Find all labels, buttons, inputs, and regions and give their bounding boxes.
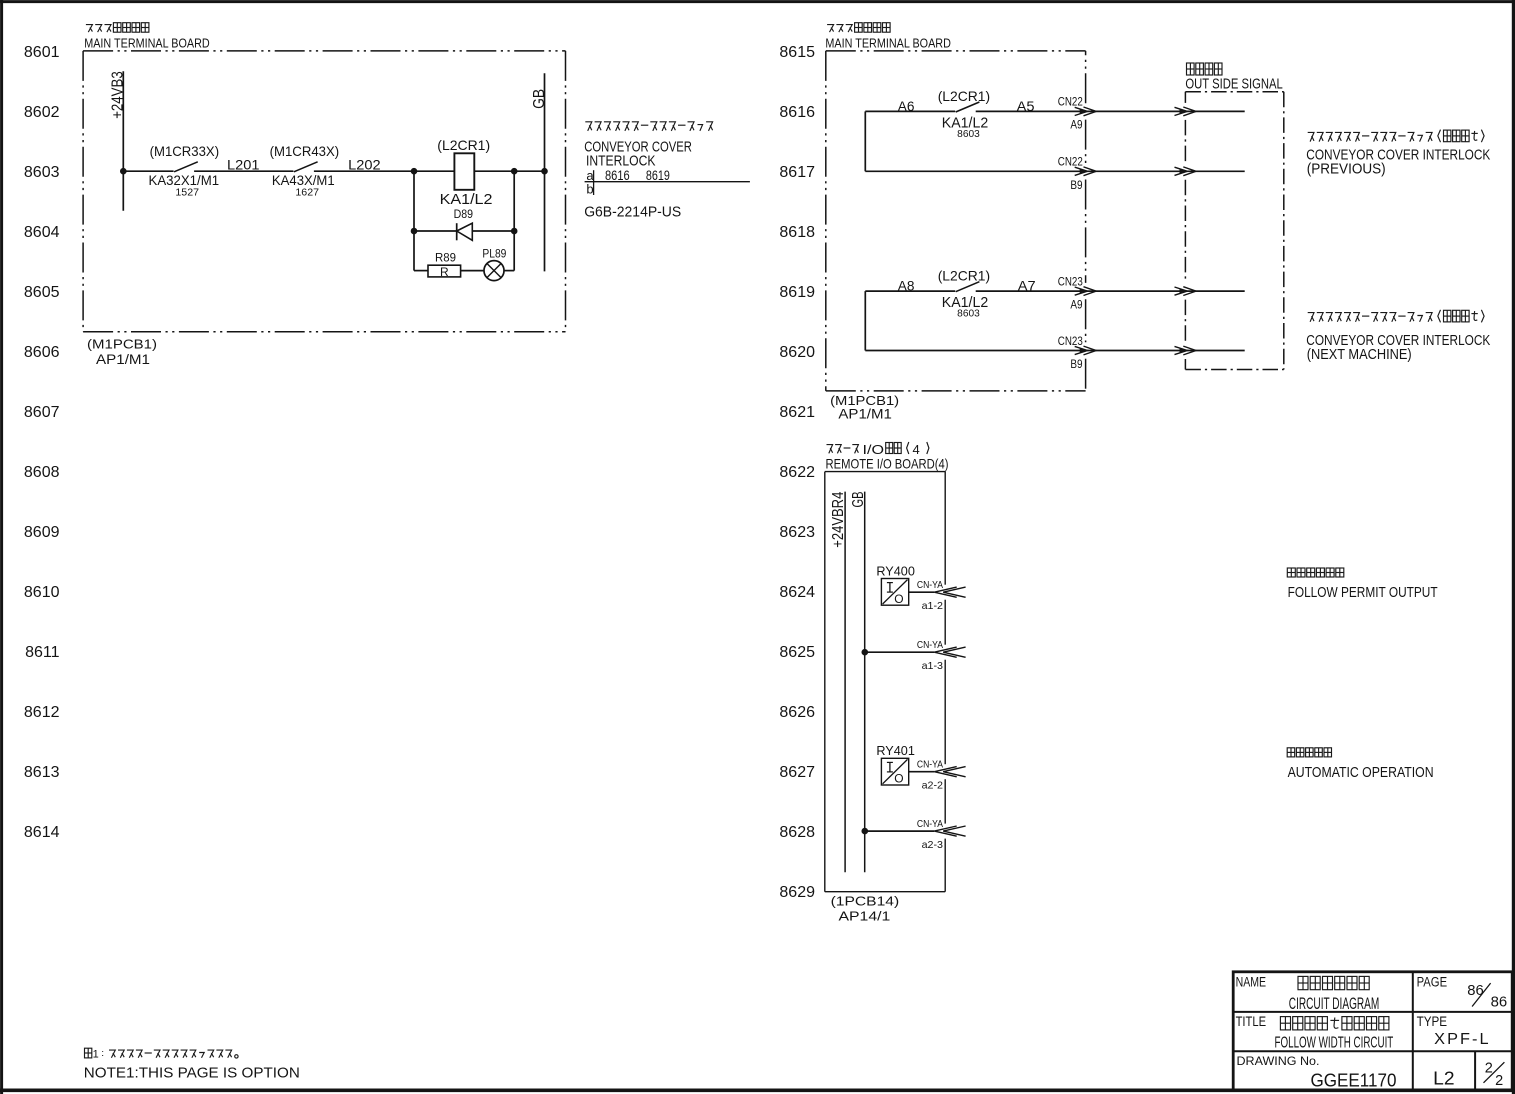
arrow 8616 at outside signal border — [1175, 107, 1188, 115]
svg-text:MAIN TERMINAL BOARD: MAIN TERMINAL BOARD — [84, 36, 210, 51]
wire lamp to right branch — [504, 270, 514, 272]
svg-text:XPF-L: XPF-L — [1434, 1031, 1490, 1048]
svg-text:RY401: RY401 — [876, 744, 915, 758]
svg-text:1: 1 — [93, 1049, 99, 1061]
board AP1/M1 right title (Japanese) メイン中継基板 — [827, 23, 890, 33]
svg-text:CIRCUIT DIAGRAM: CIRCUIT DIAGRAM — [1289, 994, 1380, 1013]
board AP1/M1 right outline left — [825, 51, 827, 391]
svg-text:MAIN TERMINAL BOARD: MAIN TERMINAL BOARD — [825, 36, 951, 51]
power rail +24VB3 — [122, 71, 124, 211]
power rail +24VBR4 — [844, 492, 846, 873]
svg-text:INTERLOCK: INTERLOCK — [586, 153, 656, 170]
svg-text:8619: 8619 — [646, 168, 670, 183]
svg-text:D89: D89 — [454, 209, 473, 221]
connector CN-YA a1-2 chevron — [934, 587, 956, 597]
ground rail GB remote — [864, 492, 866, 873]
wire 8624 RY400 to connector — [909, 591, 935, 593]
wire 8616-8617 vertical link — [864, 111, 866, 171]
svg-text:NAME: NAME — [1236, 974, 1267, 989]
wire L201 between contacts — [194, 170, 293, 172]
wire 8620 to outside — [865, 350, 1244, 352]
svg-text:CN-YA: CN-YA — [917, 818, 943, 830]
svg-text:GB: GB — [531, 89, 548, 109]
svg-text:8625: 8625 — [779, 644, 815, 661]
arrow 8619 at outside signal border — [1175, 287, 1188, 295]
node diode right — [511, 228, 518, 235]
node GB 8628 — [862, 828, 869, 835]
svg-text:REMOTE I/O BOARD(4): REMOTE I/O BOARD(4) — [826, 455, 949, 471]
svg-text:8624: 8624 — [779, 584, 815, 601]
wire diode row right — [472, 230, 514, 232]
board AP1/M1 right outline top — [826, 50, 1086, 52]
svg-text:A9: A9 — [1070, 118, 1082, 132]
svg-text:TYPE: TYPE — [1417, 1014, 1448, 1029]
svg-text:8622: 8622 — [779, 464, 815, 481]
diode D89 — [456, 223, 458, 240]
svg-text:a1-2: a1-2 — [922, 600, 944, 612]
page border frame — [0, 0, 1515, 3]
svg-text:8601: 8601 — [24, 44, 60, 61]
wire 8617 to outside — [865, 170, 1244, 172]
remote board title (Japanese) リモートI/O基板(4) — [827, 445, 859, 454]
connector CN-YA a1-3 chevron — [934, 647, 956, 657]
svg-text:TITLE: TITLE — [1236, 1014, 1267, 1029]
svg-text:+24VB3: +24VB3 — [110, 71, 127, 119]
svg-text:8619: 8619 — [779, 284, 815, 301]
svg-text:A7: A7 — [1018, 278, 1036, 294]
svg-text:L202: L202 — [348, 156, 381, 172]
wire L202 to relay coil — [314, 170, 455, 172]
svg-text:O: O — [894, 592, 903, 606]
svg-text:a1-3: a1-3 — [922, 660, 944, 672]
outside signal title (Japanese) 外部信号 — [1187, 63, 1223, 75]
svg-text:(L2CR1): (L2CR1) — [938, 88, 990, 104]
contact KA1/L2 (L2CR1) upper — [956, 102, 980, 112]
svg-text:(L2CR1): (L2CR1) — [437, 137, 490, 153]
svg-text:8612: 8612 — [24, 704, 60, 721]
svg-text:8606: 8606 — [24, 344, 60, 361]
svg-text:8610: 8610 — [24, 584, 60, 601]
svg-text:8603: 8603 — [957, 309, 980, 320]
svg-text:FOLLOW PERMIT OUTPUT: FOLLOW PERMIT OUTPUT — [1288, 584, 1438, 601]
svg-text:R: R — [440, 265, 449, 279]
svg-text:CN23: CN23 — [1058, 274, 1083, 288]
node at +24VB3 and wire 8603 — [120, 168, 127, 175]
title block outline — [1233, 972, 1512, 1090]
svg-text:8629: 8629 — [779, 884, 815, 901]
svg-text:B9: B9 — [1070, 178, 1082, 192]
svg-text:(L2CR1): (L2CR1) — [938, 268, 990, 284]
svg-text:CN22: CN22 — [1058, 155, 1083, 169]
arrow 8617 at outside signal border — [1175, 167, 1188, 175]
wire 8625 GB to connector — [865, 651, 935, 653]
svg-text:8614: 8614 — [24, 824, 60, 841]
node B branch right — [511, 168, 518, 175]
svg-text:2: 2 — [1495, 1073, 1503, 1089]
svg-text:8628: 8628 — [779, 824, 815, 841]
ground rail GB — [544, 73, 546, 271]
svg-text:8618: 8618 — [779, 224, 815, 241]
svg-text:8616: 8616 — [605, 168, 630, 183]
svg-text:DRAWING No.: DRAWING No. — [1237, 1054, 1320, 1068]
node at GB rail — [541, 168, 548, 175]
svg-text:L201: L201 — [227, 156, 260, 172]
svg-text:8617: 8617 — [779, 164, 815, 181]
svg-text:B9: B9 — [1070, 357, 1082, 371]
svg-text:8604: 8604 — [24, 224, 60, 241]
connector CN-YA a2-2 chevron — [934, 767, 956, 777]
svg-text:KA43X/M1: KA43X/M1 — [272, 172, 335, 188]
node A branch left — [411, 168, 418, 175]
svg-text:FOLLOW WIDTH CIRCUIT: FOLLOW WIDTH CIRCUIT — [1275, 1035, 1394, 1052]
wire 8619 right segment to outside — [976, 290, 1245, 292]
note1 Japanese 注1:このページはオプションです。 — [85, 1048, 92, 1058]
board AP1/M1 title (Japanese) メイン中継基板 — [86, 23, 149, 33]
svg-text:8616: 8616 — [779, 104, 815, 121]
wire left branch vertical — [413, 171, 415, 270]
svg-text:KA1/L2: KA1/L2 — [440, 191, 493, 208]
svg-text:OUT SIDE SIGNAL: OUT SIDE SIGNAL — [1185, 76, 1282, 93]
svg-text:AP1/M1: AP1/M1 — [838, 407, 892, 422]
svg-text:AUTOMATIC OPERATION: AUTOMATIC OPERATION — [1288, 764, 1434, 781]
arrow 8617 at board border — [1075, 167, 1088, 175]
svg-text:8626: 8626 — [779, 704, 815, 721]
svg-text:RY400: RY400 — [876, 565, 915, 579]
wire resistor to lamp — [461, 270, 484, 272]
resistor R89 — [428, 265, 461, 277]
svg-text:GB: GB — [850, 492, 867, 508]
svg-text:GGEE1170: GGEE1170 — [1311, 1071, 1397, 1091]
svg-text:O: O — [894, 772, 903, 786]
board AP1/M1 right outline right with gaps — [1085, 51, 1087, 103]
svg-text:8613: 8613 — [24, 764, 60, 781]
pilot lamp PL89 — [484, 261, 504, 281]
wire right branch vertical — [513, 171, 515, 270]
svg-text:PL89: PL89 — [482, 248, 506, 260]
svg-text:A5: A5 — [1017, 98, 1035, 114]
svg-text:1527: 1527 — [175, 187, 199, 198]
svg-text:1627: 1627 — [295, 187, 319, 198]
svg-text:a2-3: a2-3 — [922, 839, 944, 851]
annotation follow permit output (Japanese) 追従許可出力 — [1287, 568, 1344, 577]
wire 8628 GB to connector — [865, 830, 935, 832]
svg-text:A6: A6 — [898, 98, 915, 114]
svg-text:(M1CR33X): (M1CR33X) — [150, 143, 220, 159]
svg-text:NOTE1:THIS PAGE IS OPTION: NOTE1:THIS PAGE IS OPTION — [84, 1065, 300, 1082]
svg-text:AP1/M1: AP1/M1 — [96, 352, 150, 367]
svg-text:(PREVIOUS): (PREVIOUS) — [1307, 161, 1386, 178]
wire 8627 RY401 to connector — [909, 771, 935, 773]
svg-text:8605: 8605 — [24, 284, 60, 301]
svg-text:AP14/1: AP14/1 — [839, 910, 891, 924]
title block title Japanese 追従巾決め制御回路 — [1280, 1017, 1389, 1030]
svg-text:8620: 8620 — [779, 344, 815, 361]
svg-text:PAGE: PAGE — [1417, 974, 1448, 989]
wire bottom row to resistor — [414, 270, 428, 272]
svg-text:(M1CR43X): (M1CR43X) — [270, 143, 340, 159]
svg-text:8609: 8609 — [24, 524, 60, 541]
annotation conveyor cover interlock previous (Japanese) — [1308, 130, 1484, 143]
relay coil KA1/L2 (L2CR1) — [454, 153, 474, 190]
svg-text:8611: 8611 — [25, 644, 60, 661]
arrow 8616 at board border — [1075, 107, 1088, 115]
svg-text:8603: 8603 — [957, 129, 980, 140]
svg-text:86: 86 — [1467, 983, 1484, 999]
arrow 8619 at board border — [1075, 287, 1088, 295]
annotation automatic operation (Japanese) 自動運転中 — [1287, 748, 1331, 757]
board AP1/M1 right outline bottom — [826, 390, 1086, 392]
remote board outline — [825, 471, 945, 473]
wire diode row left — [414, 230, 457, 232]
title block name Japanese 電気回路線図 — [1298, 976, 1369, 989]
note Japanese コンベアカバーインターロック — [585, 122, 712, 131]
svg-text:A8: A8 — [898, 278, 915, 294]
svg-text:CN22: CN22 — [1058, 95, 1083, 109]
svg-text:86: 86 — [1491, 995, 1508, 1011]
svg-text:L2: L2 — [1433, 1069, 1454, 1089]
svg-text:KA32X1/M1: KA32X1/M1 — [149, 172, 220, 188]
contact KA1/L2 (L2CR1) lower — [956, 282, 980, 292]
svg-text:8621: 8621 — [779, 404, 815, 421]
svg-text:CN-YA: CN-YA — [917, 758, 943, 770]
svg-text:a2-2: a2-2 — [922, 780, 944, 792]
contact KA32X1/M1 (M1CR33X) — [174, 162, 198, 172]
svg-text:8602: 8602 — [24, 104, 60, 121]
svg-text:8615: 8615 — [779, 44, 815, 61]
svg-text:(NEXT MACHINE): (NEXT MACHINE) — [1307, 346, 1412, 363]
wire 8619-8620 vertical link — [864, 291, 866, 350]
svg-text:(M1PCB1): (M1PCB1) — [87, 337, 157, 352]
svg-text:(1PCB14): (1PCB14) — [831, 895, 900, 909]
svg-text:A9: A9 — [1070, 297, 1082, 311]
node GB 8625 — [862, 649, 869, 656]
wire 8619 left segment — [865, 290, 955, 292]
svg-text:8607: 8607 — [24, 404, 60, 421]
board AP1/M1 outline (main terminal board left) — [83, 50, 565, 52]
outside signal box outline — [1185, 91, 1283, 93]
svg-text:8627: 8627 — [779, 764, 815, 781]
svg-text:b: b — [586, 182, 593, 197]
svg-text:CN-YA: CN-YA — [917, 579, 943, 591]
svg-text:+24VBR4: +24VBR4 — [830, 492, 847, 548]
svg-text:G6B-2214P-US: G6B-2214P-US — [584, 204, 681, 221]
wire from coil to GB rail — [474, 170, 544, 172]
svg-text:8623: 8623 — [779, 524, 815, 541]
node diode left — [411, 228, 418, 235]
svg-text:8603: 8603 — [24, 164, 60, 181]
arrow 8620 at board border — [1075, 346, 1088, 354]
contact KA43X/M1 (M1CR43X) — [294, 162, 318, 172]
note contact table rule — [585, 181, 750, 183]
wire 8603 segment from +24VB3 to contact KA32X1 — [123, 170, 173, 172]
wire 8616 left segment — [865, 110, 955, 112]
connector CN-YA a2-3 chevron — [934, 826, 956, 836]
svg-text:R89: R89 — [435, 252, 456, 264]
svg-text:CN-YA: CN-YA — [917, 639, 943, 651]
wire 8616 right segment to outside — [976, 110, 1245, 112]
annotation conveyor cover interlock next (Japanese) — [1308, 310, 1484, 323]
svg-text:8608: 8608 — [24, 464, 60, 481]
arrow 8620 at outside signal border — [1175, 346, 1188, 354]
svg-text:CN23: CN23 — [1058, 334, 1083, 348]
